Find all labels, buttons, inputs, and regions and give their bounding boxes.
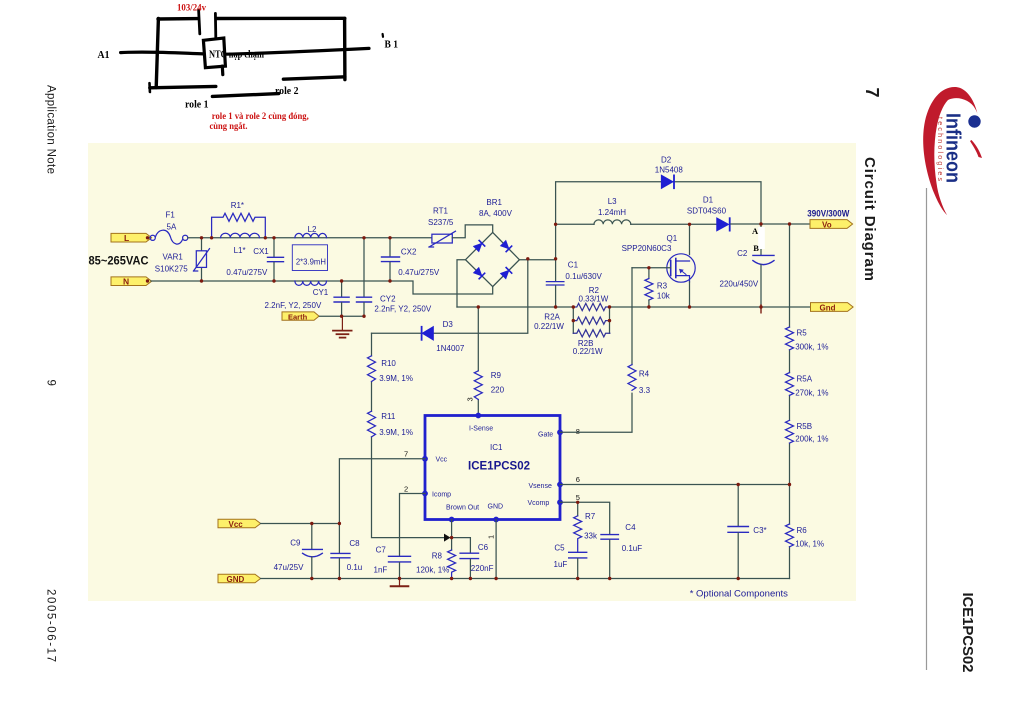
svg-text:2005-06-17: 2005-06-17 — [45, 589, 57, 662]
svg-text:7: 7 — [862, 88, 882, 98]
svg-text:L: L — [124, 233, 129, 243]
svg-text:10k, 1%: 10k, 1% — [795, 540, 824, 549]
capacitor C6 — [460, 553, 478, 578]
svg-text:0.22/1W: 0.22/1W — [534, 322, 564, 331]
svg-text:103/24v: 103/24v — [177, 4, 206, 14]
svg-text:47u/25V: 47u/25V — [274, 563, 304, 572]
wire Q1 gate line — [632, 267, 671, 269]
net label L — [111, 233, 152, 243]
logo blue dot — [968, 115, 980, 127]
capacitor tick 1 in sketch — [199, 10, 200, 34]
C2 ground red tick — [760, 305, 762, 313]
wire D3 vertical branch — [372, 259, 528, 334]
svg-text:220u/450V: 220u/450V — [720, 279, 759, 288]
resistor R3 — [645, 268, 653, 307]
transistor Q1 drain wire — [689, 224, 691, 254]
right margin: vertical rule — [926, 188, 928, 670]
wire ground rail bottom — [261, 578, 790, 580]
svg-text:R9: R9 — [491, 371, 502, 380]
svg-text:SDT04S60: SDT04S60 — [687, 206, 727, 215]
svg-text:9: 9 — [45, 380, 57, 386]
BR1 diode bottom-left — [474, 268, 485, 279]
svg-text:0.1u: 0.1u — [347, 563, 363, 572]
ground earth symbol — [333, 316, 352, 337]
svg-text:CY1: CY1 — [313, 288, 329, 297]
svg-text:Vcc: Vcc — [436, 457, 448, 464]
svg-text:R5B: R5B — [797, 422, 813, 431]
svg-text:3.9M, 1%: 3.9M, 1% — [379, 374, 413, 383]
wire sketch right vertical — [343, 18, 347, 79]
svg-text:CY2: CY2 — [380, 294, 396, 303]
svg-text:33k: 33k — [584, 532, 598, 541]
resistor R8 — [448, 550, 456, 579]
svg-text:Icomp: Icomp — [432, 492, 451, 499]
wire bridge plus to C1 node — [519, 259, 555, 261]
svg-text:R3: R3 — [657, 281, 668, 290]
node B1 tick — [382, 34, 385, 37]
svg-text:NTC nạp chạm: NTC nạp chạm — [209, 50, 265, 61]
capacitor C7 — [389, 556, 411, 578]
svg-text:390V/300W: 390V/300W — [807, 208, 849, 218]
svg-text:120k, 1%: 120k, 1% — [416, 565, 449, 574]
resistor R7 — [574, 516, 582, 552]
net label N — [111, 277, 152, 287]
svg-text:L1*: L1* — [234, 246, 246, 255]
svg-text:R5: R5 — [797, 328, 808, 337]
svg-text:1N4007: 1N4007 — [436, 344, 465, 353]
svg-text:IC1: IC1 — [490, 443, 503, 452]
svg-text:300k, 1%: 300k, 1% — [795, 342, 828, 351]
capacitor CY1 — [334, 281, 349, 316]
relay contact role 1 arm — [212, 94, 278, 97]
svg-text:A: A — [752, 226, 759, 236]
svg-text:R10: R10 — [381, 359, 396, 368]
capacitor C2 output electrolytic — [753, 224, 774, 307]
relay contact role 1 end tick — [148, 83, 151, 92]
Infineon technologies logo (rotated 90deg) — [923, 87, 982, 215]
svg-text:2.2nF, Y2, 250V: 2.2nF, Y2, 250V — [374, 304, 431, 313]
svg-text:2.2nF, Y2, 250V: 2.2nF, Y2, 250V — [265, 301, 322, 310]
net label Earth — [282, 312, 319, 322]
common-mode choke L2 bottom winding (CY1 side) — [295, 281, 327, 285]
svg-text:6: 6 — [576, 475, 580, 484]
svg-text:C4: C4 — [625, 523, 636, 532]
wire GND pin to rail — [495, 520, 497, 579]
resistor R4 — [628, 365, 636, 391]
svg-text:VAR1: VAR1 — [163, 253, 184, 262]
capacitor C5 — [569, 552, 587, 578]
svg-text:D1: D1 — [703, 196, 714, 205]
diode D1 — [717, 218, 730, 230]
svg-text:R6: R6 — [797, 526, 808, 535]
svg-text:role 1 và role 2 cùng đóng,: role 1 và role 2 cùng đóng, — [212, 112, 310, 122]
svg-text:0.47u/275V: 0.47u/275V — [398, 268, 440, 277]
svg-text:C6: C6 — [478, 543, 489, 552]
capacitor CY2 — [357, 238, 372, 316]
svg-text:Vsense: Vsense — [529, 483, 552, 490]
wire D2 bypass branch — [556, 182, 761, 260]
svg-text:C1: C1 — [568, 261, 579, 270]
circuit sheet background — [88, 143, 856, 601]
logo red swoosh — [923, 87, 978, 215]
BR1 diode top-left — [474, 240, 485, 251]
svg-text:R7: R7 — [585, 512, 596, 521]
svg-text:5A: 5A — [167, 223, 177, 232]
thermistor RT1 — [429, 231, 456, 247]
svg-text:Gate: Gate — [538, 431, 553, 438]
svg-text:R1*: R1* — [231, 201, 244, 210]
BR1 diode top-right — [501, 241, 512, 252]
common-mode choke L2 top winding — [295, 233, 327, 237]
svg-text:1nF: 1nF — [374, 565, 388, 574]
resistor R6 — [786, 524, 794, 547]
capacitor C9 electrolytic — [303, 524, 323, 579]
ground tick below C7 — [391, 579, 409, 587]
svg-text:L3: L3 — [608, 197, 617, 206]
svg-text:0.33/1W: 0.33/1W — [579, 294, 609, 303]
capacitor C4 — [601, 535, 618, 579]
capacitor C1 — [546, 260, 564, 307]
capacitor C3 optional — [728, 485, 748, 579]
fuse F1 — [150, 230, 188, 244]
wire D1 to Vo — [731, 223, 810, 225]
wire L rail fuse to RT1 — [188, 237, 432, 239]
svg-text:220: 220 — [491, 386, 505, 395]
svg-text:R5A: R5A — [797, 374, 813, 383]
svg-text:Vo: Vo — [822, 221, 832, 230]
svg-text:1: 1 — [487, 535, 496, 539]
svg-text:10k: 10k — [657, 291, 671, 300]
wire pin 5 Vcomp to C4 — [560, 502, 610, 534]
resistor R5A — [786, 373, 794, 396]
svg-text:Earth: Earth — [288, 313, 308, 322]
wire Brown Out to R8 — [451, 520, 453, 551]
svg-text:R8: R8 — [432, 551, 443, 560]
svg-text:SPP20N60C3: SPP20N60C3 — [622, 244, 672, 253]
svg-text:S10K275: S10K275 — [155, 265, 188, 274]
svg-text:* Optional Components: * Optional Components — [690, 588, 788, 599]
transistor Q1 — [667, 254, 695, 282]
bridge rectifier BR1 outline — [466, 232, 520, 286]
inductor L3 — [594, 220, 631, 224]
svg-text:C2: C2 — [737, 249, 748, 258]
resistor R1* loop — [212, 213, 266, 238]
svg-text:role 1: role 1 — [185, 100, 209, 111]
svg-text:F1: F1 — [166, 211, 176, 220]
resistor R9 — [474, 371, 482, 400]
resistor R2A — [573, 317, 609, 324]
svg-text:0.1uF: 0.1uF — [622, 544, 643, 553]
NTC box — [203, 38, 225, 68]
resistor R5B — [786, 420, 794, 443]
svg-text:RT1: RT1 — [433, 207, 449, 216]
relay contact role 2 bar — [283, 77, 345, 79]
wire RT1 to bridge — [452, 225, 492, 238]
wire sketch top rail right part — [217, 17, 345, 21]
shunt resistor network R2/R2A/R2B side bars — [573, 307, 609, 333]
svg-text:Vcc: Vcc — [229, 520, 244, 529]
wire pin 8 Gate to R4 — [560, 268, 632, 433]
wire ground rail right section — [610, 306, 811, 308]
svg-text:3: 3 — [466, 397, 475, 401]
resistor R2B — [573, 330, 609, 337]
svg-text:1.24mH: 1.24mH — [598, 208, 626, 217]
svg-text:0.22/1W: 0.22/1W — [573, 347, 603, 356]
wire L3 to D1 — [631, 223, 717, 225]
svg-text:0.1u/630V: 0.1u/630V — [565, 272, 602, 281]
svg-text:CX1: CX1 — [253, 247, 269, 256]
svg-text:C7: C7 — [376, 545, 387, 554]
svg-text:Circuit Diagram: Circuit Diagram — [861, 157, 878, 281]
svg-text:7: 7 — [404, 450, 408, 459]
wire R10/R11 startup branch — [372, 333, 445, 537]
wire earth rail — [320, 315, 365, 317]
svg-text:B: B — [753, 243, 759, 253]
wire Vcc to pin 7 — [339, 459, 425, 524]
svg-text:N: N — [123, 277, 129, 287]
wire sketch top rail left part — [158, 17, 198, 21]
svg-text:200k, 1%: 200k, 1% — [795, 434, 828, 443]
svg-text:8A, 400V: 8A, 400V — [479, 209, 513, 218]
output divider chain wire — [789, 224, 791, 579]
wire brown-out node to C6 — [452, 538, 471, 553]
svg-text:3.9M, 1%: 3.9M, 1% — [379, 428, 413, 437]
wire pin 6 Vsense line — [560, 484, 790, 486]
resistor R10 — [368, 356, 376, 382]
svg-text:ICE1PCS02: ICE1PCS02 — [959, 593, 976, 673]
wire R7 branch — [577, 502, 579, 516]
svg-text:Gnd: Gnd — [820, 304, 836, 313]
op-amp controller IC1 box — [425, 416, 560, 520]
resistor R2 — [573, 303, 609, 310]
svg-text:1uF: 1uF — [554, 560, 568, 569]
svg-text:GND: GND — [227, 575, 245, 584]
wire Q1 source to ground rail — [689, 282, 691, 307]
inductor L1* — [221, 233, 260, 238]
capacitor CX1 — [268, 238, 284, 281]
svg-text:C5: C5 — [554, 543, 565, 552]
wire node A1 lead — [121, 52, 204, 54]
svg-text:B 1: B 1 — [385, 39, 399, 51]
svg-text:CX2: CX2 — [401, 247, 417, 256]
L2 value box — [292, 245, 327, 271]
diode D2 — [662, 175, 675, 188]
svg-text:ICE1PCS02: ICE1PCS02 — [468, 461, 530, 473]
arrowhead into brown-out node — [444, 534, 451, 542]
wire bridge minus to ground rail — [457, 260, 466, 307]
IC1 pin dots — [422, 413, 563, 523]
svg-text:S237/5: S237/5 — [428, 218, 454, 227]
svg-text:2: 2 — [404, 484, 408, 493]
svg-text:L2: L2 — [308, 225, 317, 234]
svg-text:GND: GND — [488, 503, 504, 510]
net label GND — [218, 574, 261, 584]
svg-text:role 2: role 2 — [275, 86, 299, 97]
annotation white patch — [758, 227, 765, 249]
relay contact role 1 bar — [150, 86, 216, 87]
capacitor CX2 — [382, 238, 400, 281]
svg-text:cùng ngắt.: cùng ngắt. — [210, 121, 248, 132]
svg-text:D2: D2 — [661, 155, 672, 164]
wire R9 sense branch — [477, 307, 479, 416]
svg-text:C9: C9 — [290, 539, 301, 548]
svg-text:BR1: BR1 — [486, 198, 502, 207]
resistor R11 — [368, 411, 376, 437]
svg-text:Infineon: Infineon — [942, 113, 964, 183]
wire L rail to fuse — [147, 237, 150, 239]
svg-text:220nF: 220nF — [471, 564, 494, 573]
wire pin 2 Icomp to C7 — [400, 494, 426, 556]
svg-text:C8: C8 — [349, 539, 360, 548]
wire sketch left vertical — [156, 19, 158, 88]
svg-text:R4: R4 — [639, 369, 650, 378]
svg-text:Brown Out: Brown Out — [446, 505, 479, 512]
NTC bottom stub — [221, 66, 225, 75]
net label Vo — [810, 220, 853, 230]
svg-text:C3*: C3* — [753, 526, 766, 535]
net label Gnd — [811, 303, 854, 313]
wire Vcc rail — [261, 523, 340, 525]
capacitor C8 — [331, 524, 350, 579]
svg-text:R11: R11 — [381, 412, 396, 421]
svg-text:Q1: Q1 — [667, 234, 678, 243]
capacitor tick 2 in sketch — [214, 13, 217, 37]
wire N rail — [151, 281, 493, 294]
varistor VAR1 branch wire — [201, 238, 203, 281]
svg-text:270k, 1%: 270k, 1% — [795, 388, 828, 397]
svg-text:Vcomp: Vcomp — [528, 500, 550, 507]
svg-text:2*3.9mH: 2*3.9mH — [296, 258, 326, 267]
BR1 diode bottom-right — [501, 268, 512, 279]
net label Vcc — [218, 519, 261, 529]
diode D3 — [422, 327, 434, 340]
svg-text:85~265VAC: 85~265VAC — [89, 254, 149, 268]
logo swoosh upper-right fragment — [970, 140, 982, 158]
wire ground rail left section — [457, 306, 573, 308]
varistor VAR1 — [194, 249, 210, 271]
wire boost rail — [556, 223, 594, 225]
svg-text:3.3: 3.3 — [639, 386, 651, 395]
svg-text:R2A: R2A — [544, 313, 560, 322]
svg-text:I-Sense: I-Sense — [469, 425, 493, 432]
svg-text:1N5408: 1N5408 — [655, 166, 684, 175]
svg-text:A1: A1 — [98, 49, 110, 61]
resistor R5 — [786, 327, 794, 350]
svg-text:Application Note: Application Note — [45, 85, 57, 174]
wire NTC to node B1 lead — [226, 48, 369, 54]
svg-text:0.47u/275V: 0.47u/275V — [226, 268, 268, 277]
svg-text:D3: D3 — [443, 320, 454, 329]
